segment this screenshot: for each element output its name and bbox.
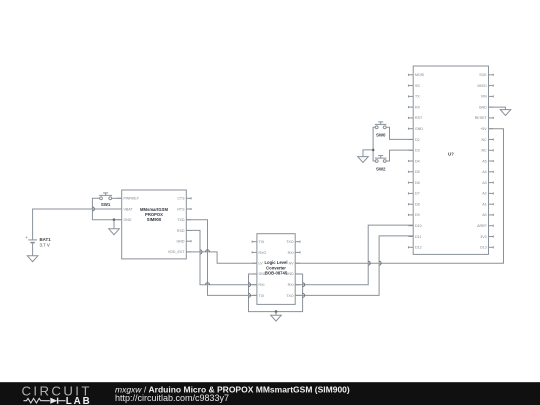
svg-text:SIM900: SIM900 bbox=[147, 217, 162, 222]
U? pin SCK (right pin 1) bbox=[479, 73, 493, 77]
svg-text:GND: GND bbox=[259, 272, 267, 276]
svg-text:RXO: RXO bbox=[259, 251, 267, 255]
U? pin RX (left pin 4) bbox=[408, 105, 420, 109]
U? pin D5 (left pin 10) bbox=[408, 170, 419, 174]
svg-text:VIN: VIN bbox=[481, 95, 487, 99]
ground (IC) bbox=[500, 110, 511, 116]
U? pin D10 (left pin 15) bbox=[408, 224, 421, 228]
U? pin GND (left pin 6) bbox=[408, 127, 423, 131]
svg-text:TXI: TXI bbox=[259, 294, 265, 298]
U? pin TX (left pin 3) bbox=[408, 95, 420, 99]
wire junction to ground bbox=[275, 312, 277, 316]
svg-text:A0: A0 bbox=[482, 213, 486, 217]
svg-text:RXD: RXD bbox=[177, 229, 185, 233]
svg-text:D9: D9 bbox=[415, 213, 420, 217]
wire converter GND loop bbox=[249, 274, 303, 312]
wire VDD_EXT to converter LV bbox=[186, 252, 257, 263]
U? pin MISO (right pin 2) bbox=[478, 84, 494, 88]
svg-text:VDD_EXT: VDD_EXT bbox=[168, 250, 185, 254]
wire TXD to converter TXI bbox=[186, 220, 257, 296]
svg-text:RTS: RTS bbox=[177, 207, 185, 211]
MMsmartGSM pin TXD (right) bbox=[177, 218, 191, 222]
ground (switches) bbox=[358, 157, 369, 163]
svg-text:D11: D11 bbox=[415, 235, 421, 239]
svg-text:RST: RST bbox=[415, 116, 423, 120]
svg-text:A1: A1 bbox=[482, 203, 486, 207]
svg-text:http://circuitlab.com/c9833y7: http://circuitlab.com/c9833y7 bbox=[115, 393, 229, 403]
svg-text:3V3: 3V3 bbox=[480, 235, 486, 239]
svg-text:AREF: AREF bbox=[477, 224, 487, 228]
U? pin D6 (left pin 11) bbox=[408, 181, 419, 185]
svg-text:RXI: RXI bbox=[288, 251, 294, 255]
MMsmartGSM pin CTS (right) bbox=[177, 197, 191, 201]
converter pin RXI (right 2) bbox=[288, 251, 300, 255]
U? pin D11 (left pin 16) bbox=[408, 235, 421, 239]
footer black bar bbox=[0, 382, 540, 405]
node junction switches bbox=[372, 149, 375, 152]
svg-text:GND: GND bbox=[177, 240, 185, 244]
ground (converter) bbox=[271, 315, 282, 321]
svg-text:LV: LV bbox=[259, 262, 264, 266]
wire battery+ to VBAT bbox=[33, 209, 122, 240]
IC U3 Logic Level Converter BOB-08745 box bbox=[257, 234, 295, 305]
U? pin D2 (left pin 7) bbox=[408, 138, 419, 142]
ground (GSM) bbox=[109, 229, 120, 235]
wire RXD to converter RXI bbox=[186, 230, 257, 284]
U? pin GND (right pin 4) bbox=[479, 105, 494, 109]
U? pin +5V (right pin 6) bbox=[480, 127, 493, 131]
converter pin LV (left 3) bbox=[252, 262, 263, 266]
U? pin D12 (left pin 17) bbox=[408, 246, 421, 250]
svg-text:D8: D8 bbox=[415, 203, 420, 207]
wire hop crossing (D11 wire over GND loop right) bbox=[303, 293, 305, 297]
U? pin D3 (left pin 8) bbox=[408, 149, 419, 153]
wire hop crossing (battery wire over SW1 vertical) bbox=[92, 207, 94, 211]
wire SW1 right to PWRKEY bbox=[112, 197, 122, 199]
wire SW2 right to D3 bbox=[386, 150, 413, 161]
svg-text:MISO: MISO bbox=[478, 84, 487, 88]
svg-text:D3: D3 bbox=[415, 149, 420, 153]
U? pin RST (left pin 5) bbox=[408, 116, 423, 120]
wire SW2 left up bbox=[373, 150, 375, 161]
wire junction to ground bbox=[363, 150, 373, 157]
U? pin 3V3 (right pin 16) bbox=[480, 235, 493, 239]
svg-text:LAB: LAB bbox=[66, 396, 92, 405]
U? pin VIN (right pin 3) bbox=[481, 95, 494, 99]
MMsmartGSM pin VDD_EXT (right) bbox=[168, 250, 191, 254]
U? pin AREF (right pin 15) bbox=[477, 224, 493, 228]
converter pin RXI (left 5) bbox=[252, 283, 264, 287]
converter pin TXI (left 1) bbox=[252, 240, 264, 244]
wire hop crossing (D10 wire over GND loop right) bbox=[303, 283, 305, 287]
svg-text:D7: D7 bbox=[415, 192, 420, 196]
CircuitLab logo resistor+diode and LAB bbox=[24, 396, 92, 405]
converter pin GND (left 4) bbox=[252, 272, 267, 276]
converter pin GND (right 4) bbox=[286, 272, 300, 276]
svg-text:D4: D4 bbox=[415, 159, 420, 163]
svg-text:PWRKEY: PWRKEY bbox=[124, 197, 140, 201]
wire SW0 left down bbox=[373, 127, 375, 150]
svg-text:SCK: SCK bbox=[479, 73, 487, 77]
wire GND row to ground bbox=[113, 220, 115, 229]
svg-text:BOB-08745: BOB-08745 bbox=[265, 271, 288, 276]
wire hop crossing (VDD_EXT wire over TXD vertical) bbox=[206, 250, 210, 252]
converter pin RXI (right 5) bbox=[288, 283, 300, 287]
wire hop crossing (TXD wire over GND loop left) bbox=[249, 293, 251, 297]
svg-text:RXI: RXI bbox=[259, 283, 265, 287]
svg-text:RXI: RXI bbox=[288, 283, 294, 287]
wire converter TXO to D11 bbox=[295, 236, 413, 296]
wire hop crossing (D10 vertical over HV wire) bbox=[368, 261, 370, 265]
switch SW1 bbox=[99, 193, 112, 207]
svg-text:SW2: SW2 bbox=[376, 166, 386, 171]
converter pin TXI (left 6) bbox=[252, 294, 264, 298]
svg-text:HV: HV bbox=[289, 262, 295, 266]
U? pin A3 (right pin 11) bbox=[482, 181, 493, 185]
U? pin D4 (left pin 9) bbox=[408, 159, 419, 163]
svg-text:GND: GND bbox=[124, 218, 132, 222]
wire converter RXI to D10 bbox=[295, 225, 413, 285]
svg-text:GND: GND bbox=[415, 127, 423, 131]
svg-text:D2: D2 bbox=[415, 138, 420, 142]
svg-text:U?: U? bbox=[448, 152, 454, 157]
converter pin TXO (right 6) bbox=[286, 294, 300, 298]
svg-text:A5: A5 bbox=[482, 159, 486, 163]
wire converter HV to +5V bbox=[295, 129, 503, 264]
wire hop crossing (RXD wire over TXD vertical) bbox=[206, 283, 210, 285]
svg-text:BAT1: BAT1 bbox=[40, 237, 52, 242]
wire hop crossing (RXD wire over GND loop left) bbox=[249, 283, 251, 287]
MMsmartGSM pin RXD (right) bbox=[177, 229, 191, 233]
svg-text:TXO: TXO bbox=[286, 240, 294, 244]
U? pin D13 (right pin 17) bbox=[480, 246, 493, 250]
svg-text:TXD: TXD bbox=[177, 218, 185, 222]
U? pin A4 (right pin 10) bbox=[482, 170, 493, 174]
svg-text:NC: NC bbox=[481, 138, 487, 142]
svg-text:A3: A3 bbox=[482, 181, 486, 185]
ground (battery) bbox=[27, 256, 38, 262]
U? pin A2 (right pin 12) bbox=[482, 192, 493, 196]
U? pin A1 (right pin 13) bbox=[482, 203, 493, 207]
svg-text:+: + bbox=[25, 235, 28, 240]
U? pin NC (right pin 8) bbox=[481, 149, 493, 153]
wire battery- to ground bbox=[32, 243, 34, 256]
wire hop crossing (VDD_EXT wire over RXD vertical) bbox=[200, 250, 202, 254]
svg-text:D10: D10 bbox=[415, 224, 422, 228]
svg-text:CTS: CTS bbox=[177, 197, 185, 201]
svg-text:SW1: SW1 bbox=[101, 202, 111, 207]
MMsmartGSM pin PWRKEY (left) bbox=[117, 197, 140, 201]
MMsmartGSM pin VBAT (left) bbox=[117, 207, 134, 211]
svg-text:D13: D13 bbox=[480, 246, 487, 250]
node junction converter ground bbox=[275, 310, 278, 313]
svg-text:TXO: TXO bbox=[286, 294, 294, 298]
MMsmartGSM pin RTS (right) bbox=[177, 207, 191, 211]
svg-text:RESET: RESET bbox=[475, 116, 488, 120]
svg-text:+5V: +5V bbox=[480, 127, 487, 131]
U? pin SS (left pin 2) bbox=[408, 84, 420, 88]
node junction GND row bbox=[113, 218, 116, 221]
U? pin MOSI (left pin 1) bbox=[408, 73, 424, 77]
wire hop crossing (D11 vertical over HV wire) bbox=[379, 261, 381, 265]
svg-text:TXI: TXI bbox=[259, 240, 265, 244]
U? pin D7 (left pin 12) bbox=[408, 192, 419, 196]
U? pin RESET (right pin 5) bbox=[475, 116, 494, 120]
svg-text:SS: SS bbox=[415, 84, 420, 88]
svg-text:D12: D12 bbox=[415, 246, 422, 250]
U? pin D8 (left pin 13) bbox=[408, 203, 419, 207]
svg-text:GND: GND bbox=[286, 272, 294, 276]
svg-text:RX: RX bbox=[415, 105, 421, 109]
svg-text:TX: TX bbox=[415, 95, 420, 99]
IC U? Arduino Micro box bbox=[413, 66, 488, 254]
battery BAT1 bbox=[25, 235, 51, 248]
svg-text:NC: NC bbox=[481, 149, 487, 153]
wire SW0 right to D2 bbox=[386, 127, 413, 139]
U? pin NC (right pin 7) bbox=[481, 138, 493, 142]
U? pin D9 (left pin 14) bbox=[408, 213, 419, 217]
switch SW0 bbox=[375, 122, 387, 138]
svg-text:D5: D5 bbox=[415, 170, 420, 174]
IC U2 MMsmartGSM PROPOX SIM900 box bbox=[122, 190, 187, 259]
wire SW1 left to GSM GND bbox=[92, 198, 121, 219]
svg-text:MOSI: MOSI bbox=[415, 73, 424, 77]
svg-text:A4: A4 bbox=[482, 170, 486, 174]
svg-text:A2: A2 bbox=[482, 192, 486, 196]
converter pin RXO (left 2) bbox=[252, 251, 266, 255]
U? pin A0 (right pin 14) bbox=[482, 213, 493, 217]
wire IC GND to ground bbox=[489, 107, 506, 110]
svg-text:D6: D6 bbox=[415, 181, 420, 185]
switch SW2 bbox=[375, 156, 387, 172]
MMsmartGSM pin GND (left) bbox=[117, 218, 132, 222]
svg-text:3.7 V: 3.7 V bbox=[40, 243, 50, 248]
svg-text:SW0: SW0 bbox=[376, 133, 386, 138]
converter pin TXO (right 1) bbox=[286, 240, 300, 244]
svg-text:GND: GND bbox=[479, 105, 487, 109]
U? pin A5 (right pin 9) bbox=[482, 159, 493, 163]
converter pin HV (right 3) bbox=[289, 262, 300, 266]
svg-text:VBAT: VBAT bbox=[124, 207, 134, 211]
MMsmartGSM pin GND (right) bbox=[177, 240, 192, 244]
